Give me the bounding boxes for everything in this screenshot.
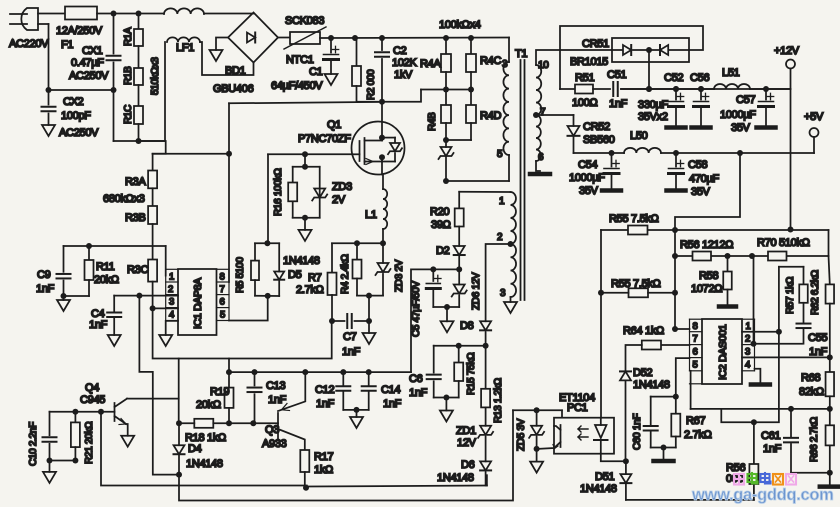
svg-text:AC250V: AC250V (59, 127, 99, 139)
svg-text:C7: C7 (343, 331, 357, 343)
svg-text:20kΩ: 20kΩ (196, 399, 221, 411)
svg-text:NTC1: NTC1 (286, 54, 314, 66)
svg-text:C945: C945 (80, 394, 105, 406)
svg-text:R55 7.5kΩ: R55 7.5kΩ (611, 278, 661, 290)
svg-text:ZD5 3V: ZD5 3V (516, 418, 527, 451)
svg-text:R67: R67 (686, 415, 705, 427)
svg-text:35V: 35V (579, 185, 599, 197)
svg-text:ZD3 2V: ZD3 2V (394, 259, 405, 292)
svg-text:R58: R58 (699, 270, 718, 282)
svg-text:4: 4 (745, 360, 750, 371)
svg-text:C2: C2 (393, 45, 407, 57)
svg-text:0.47µF: 0.47µF (71, 57, 104, 69)
svg-text:5: 5 (220, 310, 225, 321)
svg-text:8: 8 (220, 272, 225, 283)
svg-text:C12: C12 (315, 384, 334, 396)
svg-text:1N4148: 1N4148 (186, 458, 223, 470)
svg-text:R64 1kΩ: R64 1kΩ (623, 325, 664, 337)
svg-text:35V: 35V (731, 122, 751, 134)
svg-text:35V: 35V (691, 186, 711, 198)
svg-text:A933: A933 (262, 438, 287, 450)
svg-text:R2 000: R2 000 (366, 69, 377, 100)
svg-text:12A/250V: 12A/250V (56, 25, 103, 37)
svg-text:R5 5100: R5 5100 (235, 257, 246, 293)
svg-text:L1: L1 (365, 209, 377, 221)
svg-text:D52: D52 (633, 367, 652, 379)
svg-text:D5: D5 (288, 269, 302, 281)
svg-text:100pF: 100pF (61, 110, 91, 122)
svg-text:R11: R11 (96, 261, 115, 273)
svg-text:Q4: Q4 (85, 382, 99, 394)
svg-text:7: 7 (693, 334, 698, 345)
svg-text:8: 8 (693, 321, 698, 332)
svg-text:C10 2.2nF: C10 2.2nF (28, 422, 39, 466)
svg-text:4: 4 (169, 310, 174, 321)
svg-text:1kΩ: 1kΩ (314, 464, 333, 476)
svg-text:R1B: R1B (123, 66, 134, 85)
svg-text:CX2: CX2 (63, 96, 84, 108)
svg-text:7: 7 (220, 284, 225, 295)
svg-text:1: 1 (746, 321, 751, 332)
svg-text:20kΩ: 20kΩ (94, 274, 119, 286)
svg-text:1nF: 1nF (409, 387, 428, 399)
svg-text:1nF: 1nF (383, 398, 402, 410)
svg-text:1nF: 1nF (809, 346, 828, 358)
svg-text:C6: C6 (409, 373, 423, 385)
svg-text:AC220V: AC220V (9, 38, 49, 50)
svg-text:SB560: SB560 (583, 134, 615, 146)
svg-text:ZD3: ZD3 (332, 181, 352, 193)
svg-text:470µF: 470µF (689, 173, 719, 185)
svg-text:R3A: R3A (125, 176, 146, 188)
svg-text:D51: D51 (595, 471, 614, 483)
svg-text:100kΩx4: 100kΩx4 (439, 19, 481, 31)
svg-text:2.7kΩ: 2.7kΩ (684, 429, 712, 441)
svg-text:1nF: 1nF (763, 443, 782, 455)
svg-text:5: 5 (497, 149, 503, 160)
svg-text:1000µF: 1000µF (720, 109, 756, 121)
svg-text:5: 5 (693, 360, 698, 371)
svg-text:1N4148: 1N4148 (580, 483, 617, 495)
svg-text:1N4148: 1N4148 (437, 472, 474, 484)
svg-text:C1: C1 (309, 66, 323, 78)
svg-text:C14: C14 (381, 384, 400, 396)
svg-text:R4D: R4D (480, 110, 501, 122)
svg-text:C61: C61 (761, 430, 780, 442)
svg-text:1N4148: 1N4148 (283, 255, 320, 267)
svg-text:C60 1nF: C60 1nF (632, 414, 643, 450)
svg-text:100Ω: 100Ω (572, 97, 597, 109)
svg-text:Q1: Q1 (327, 119, 341, 131)
svg-text:C55: C55 (808, 332, 827, 344)
svg-text:3: 3 (500, 288, 506, 299)
svg-text:2: 2 (497, 232, 503, 243)
svg-text:R66 2.7kΩ: R66 2.7kΩ (809, 416, 820, 462)
svg-text:LF1: LF1 (176, 42, 194, 54)
svg-text:+5V: +5V (804, 111, 824, 123)
svg-text:1: 1 (499, 196, 505, 207)
svg-text:35Vx2: 35Vx2 (638, 111, 668, 123)
svg-text:R4B: R4B (427, 112, 438, 131)
svg-text:6: 6 (220, 297, 225, 308)
svg-text:R68: R68 (801, 372, 820, 384)
svg-text:82kΩ: 82kΩ (799, 386, 824, 398)
svg-text:1nF: 1nF (268, 394, 287, 406)
svg-text:1: 1 (169, 272, 174, 283)
svg-text:510kΩx3: 510kΩx3 (150, 57, 161, 95)
svg-text:3: 3 (502, 59, 508, 70)
svg-text:39Ω: 39Ω (431, 219, 451, 231)
svg-text:C54: C54 (578, 159, 597, 171)
svg-text:www.ga-gddq.com: www.ga-gddq.com (691, 486, 834, 504)
svg-text:680kΩx3: 680kΩx3 (103, 193, 145, 205)
svg-text:R19: R19 (210, 386, 229, 398)
svg-text:GBU406: GBU406 (213, 83, 254, 95)
svg-text:CX1: CX1 (82, 45, 103, 57)
svg-text:12V: 12V (457, 437, 477, 449)
svg-text:64µF/450V: 64µF/450V (271, 80, 323, 92)
svg-text:R57 1kΩ: R57 1kΩ (785, 276, 796, 314)
svg-text:C13: C13 (266, 380, 285, 392)
svg-text:BR1015: BR1015 (570, 56, 608, 68)
svg-text:R4C: R4C (480, 55, 501, 67)
svg-text:IC1 DAP8A: IC1 DAP8A (192, 278, 204, 329)
svg-text:F1: F1 (61, 39, 73, 51)
svg-text:R70 510kΩ: R70 510kΩ (757, 237, 810, 249)
svg-text:C58: C58 (688, 159, 707, 171)
svg-text:1kV: 1kV (394, 69, 413, 81)
svg-text:CR52: CR52 (583, 121, 610, 133)
svg-text:P7NC70ZF: P7NC70ZF (298, 133, 351, 145)
svg-text:ZD6 12V: ZD6 12V (471, 272, 482, 310)
svg-text:R4A: R4A (420, 58, 441, 70)
svg-text:L50: L50 (630, 130, 648, 142)
svg-text:R3B: R3B (125, 212, 146, 224)
svg-text:C52: C52 (664, 72, 683, 84)
svg-text:1000µF: 1000µF (569, 172, 605, 184)
svg-text:R16 100kΩ: R16 100kΩ (273, 168, 284, 216)
svg-text:CR51: CR51 (582, 38, 609, 50)
svg-text:ZD1: ZD1 (456, 425, 476, 437)
svg-text:D8: D8 (460, 320, 474, 332)
svg-text:SCK083: SCK083 (285, 15, 324, 27)
svg-text:1072Ω: 1072Ω (691, 283, 722, 295)
svg-text:102K: 102K (392, 57, 417, 69)
svg-text:R20: R20 (430, 206, 449, 218)
svg-text:R4 2.4kΩ: R4 2.4kΩ (340, 254, 351, 294)
svg-text:1nF: 1nF (36, 283, 55, 295)
svg-text:1nF: 1nF (342, 346, 361, 358)
svg-text:7: 7 (540, 107, 546, 118)
svg-text:T1: T1 (515, 48, 527, 60)
svg-text:C56: C56 (690, 72, 709, 84)
svg-text:R17: R17 (314, 451, 333, 463)
svg-text:PC1: PC1 (567, 402, 588, 414)
svg-text:6: 6 (538, 152, 544, 163)
svg-text:C57: C57 (736, 94, 755, 106)
svg-text:330µF: 330µF (638, 99, 668, 111)
svg-text:R21 20kΩ: R21 20kΩ (84, 421, 95, 464)
svg-text:R15 75kΩ: R15 75kΩ (466, 352, 477, 395)
svg-text:Q3: Q3 (265, 424, 279, 436)
svg-text:C9: C9 (37, 269, 51, 281)
svg-text:L51: L51 (722, 67, 740, 79)
svg-text:2V: 2V (332, 194, 346, 206)
svg-text:R62 6.2kΩ: R62 6.2kΩ (810, 269, 821, 315)
svg-text:R13 1.2kΩ: R13 1.2kΩ (493, 377, 504, 423)
svg-text:+12V: +12V (774, 45, 800, 57)
svg-text:C5 47µF/50V: C5 47µF/50V (411, 281, 422, 337)
svg-text:1nF: 1nF (89, 319, 108, 331)
svg-text:IC2 DAS001: IC2 DAS001 (717, 324, 729, 380)
svg-text:3: 3 (169, 297, 174, 308)
svg-text:2: 2 (745, 334, 750, 345)
svg-text:6: 6 (693, 347, 698, 358)
svg-text:1nF: 1nF (316, 398, 335, 410)
svg-text:D2: D2 (436, 245, 450, 257)
svg-text:BD1: BD1 (225, 65, 246, 77)
svg-text:3: 3 (745, 347, 750, 358)
svg-text:2: 2 (168, 284, 173, 295)
svg-text:R51: R51 (575, 72, 594, 84)
svg-text:R7: R7 (308, 272, 322, 284)
svg-text:R1C: R1C (123, 105, 134, 124)
svg-text:R55 7.5kΩ: R55 7.5kΩ (609, 213, 659, 225)
svg-text:R1A: R1A (123, 27, 134, 46)
svg-text:D4: D4 (188, 443, 202, 455)
svg-text:10: 10 (538, 60, 549, 71)
svg-text:2.7kΩ: 2.7kΩ (296, 284, 324, 296)
svg-text:D6: D6 (461, 459, 475, 471)
svg-text:1nF: 1nF (609, 98, 628, 110)
svg-text:R56 1212Ω: R56 1212Ω (680, 239, 733, 251)
svg-text:R3C: R3C (127, 264, 148, 276)
svg-text:AC250V: AC250V (69, 70, 109, 82)
svg-text:1N4148: 1N4148 (633, 379, 670, 391)
svg-text:C51: C51 (607, 69, 626, 81)
